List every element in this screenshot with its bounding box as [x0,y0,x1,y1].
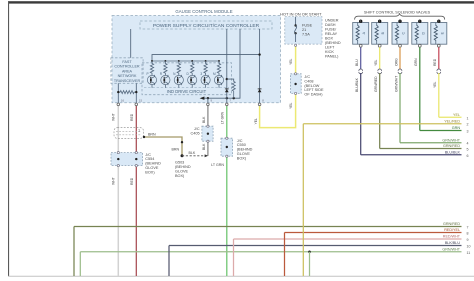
label under dash fuse relay box [325,19,341,59]
svg-text:D: D [421,32,425,35]
transistor Q2 [161,75,170,85]
svg-text:(BEHIND: (BEHIND [175,165,191,169]
svg-text:J/C: J/C [194,127,200,131]
wire CAN low inside module [117,83,119,103]
wire GRN/WHT vertical [309,252,311,276]
svg-text:8: 8 [467,232,469,236]
wire ORG solenoid C upper [399,47,401,69]
wire BLU solenoid A upper [360,47,362,69]
svg-text:16: 16 [121,99,125,103]
terminal connector [295,44,297,46]
terminal connector [207,125,209,127]
wire GRN/WHT solenoid C lower [399,73,401,143]
wire Q5 output [205,85,207,88]
transistor Q6 [214,75,223,85]
wire L2 to brace [379,19,381,22]
wire base rail [152,60,219,62]
node bus / BLK drop [207,97,209,99]
svg-text:C405: C405 [191,131,200,135]
svg-text:(BEHIND: (BEHIND [145,162,161,166]
diode D1 on LT GRN vertical [225,89,229,92]
fuse 21 7.5A [294,17,312,42]
terminal L3 bottom [399,44,402,47]
svg-text:3: 3 [200,72,202,76]
terminal connector [295,73,297,75]
svg-text:WHT: WHT [112,177,116,185]
svg-text:YEL: YEL [433,81,437,88]
terminal connector [295,92,297,94]
svg-text:BRN: BRN [148,132,156,136]
node CAN high / resistor [135,91,137,93]
node GRN/WHT branch [308,251,311,254]
wire GRN/RED exit 7 [74,226,462,228]
svg-text:BOX): BOX) [175,174,185,178]
ground G503 [181,154,184,157]
wire YEL/RED exit 2 [303,123,461,125]
wire L4 to brace [419,19,421,22]
wire RED/WHT vertical [233,239,235,276]
svg-text:GRN: GRN [452,126,461,130]
terminal module pin 9 [207,99,213,106]
svg-text:PANEL): PANEL) [325,55,339,59]
svg-text:RED: RED [130,177,134,185]
solenoid L5 (E) [431,23,447,45]
node L4 top [418,20,421,23]
node L5 top [437,20,440,23]
power supply circuit/can controller U1a [140,21,272,29]
wire L5 to brace [438,19,440,22]
shift control solenoid valves group [353,10,447,154]
svg-text:POWER SUPPLY CIRCUIT/CAN CONTR: POWER SUPPLY CIRCUIT/CAN CONTROLLER [153,23,260,29]
node rail Q3 [178,60,180,62]
wire GRN/WHT exit 11 [80,251,461,253]
junction block C554 [111,153,161,175]
terminal connector [117,165,119,167]
svg-text:7: 7 [467,226,469,230]
bus wire with arrow at module bottom [204,29,240,98]
BLK wire [207,106,209,156]
wire BLK/BLU vertical [168,246,170,277]
RED wire [135,106,137,276]
svg-text:TRANSCEIVER: TRANSCEIVER [114,79,141,83]
terminal module pin 7 [226,99,232,106]
solenoid L3 (C) [392,23,408,45]
svg-text:(BEHIND: (BEHIND [325,41,341,45]
wire BLU/BLK exit 6 [361,154,462,156]
wire BLK drop inside module [207,98,209,103]
svg-text:GRN: GRN [414,58,418,66]
svg-text:LEFT SIDE: LEFT SIDE [304,88,324,92]
svg-text:LT GRN: LT GRN [220,111,224,124]
wire feed rail top [152,55,260,61]
wire Q6 output [218,85,220,88]
node L1 top [359,20,362,23]
transistor Q4 [188,75,197,85]
svg-text:GRN/RED: GRN/RED [443,144,460,148]
svg-text:J/C: J/C [304,75,310,79]
svg-text:11: 11 [467,251,471,255]
wire YEL module to fuse U [260,96,296,128]
wire GRN solenoid D upper [419,47,421,130]
LT GRN wire [226,106,228,276]
node bus / resistor R8 [233,97,235,99]
node rail Q5 [205,60,207,62]
wire L1 to brace [360,19,362,22]
svg-text:BLU/BLK: BLU/BLK [445,151,461,155]
wire RED/WHT exit 9 [234,238,462,240]
svg-text:GRN/WHT: GRN/WHT [442,248,460,252]
solenoid L2 (B) [372,23,388,45]
node BRN mid [181,141,183,143]
svg-text:YEL: YEL [254,118,258,125]
svg-text:2: 2 [467,123,469,127]
wire Q3 output [178,85,180,88]
svg-text:IND DRIVE CIRCUIT: IND DRIVE CIRCUIT [167,89,207,94]
wire YEL solenoid B upper [379,47,381,69]
svg-text:C408: C408 [304,79,313,83]
top frame border [8,1,474,3]
connector inline L5 [437,69,441,74]
svg-text:(BELOW: (BELOW [304,84,319,88]
svg-text:GLOVE: GLOVE [237,152,251,156]
svg-text:9: 9 [467,238,469,242]
svg-text:KICK: KICK [325,50,334,54]
svg-text:FUSE/: FUSE/ [325,28,337,32]
svg-text:GAUGE CONTROL MODULE: GAUGE CONTROL MODULE [175,9,232,14]
connector inline L3 [398,69,402,74]
terminal connector [226,137,228,139]
svg-text:15: 15 [139,99,143,103]
svg-text:YEL: YEL [289,102,293,109]
wire YEL/RED vertical [302,124,304,276]
exit wires right edge [74,113,471,255]
svg-text:BOX): BOX) [145,170,155,174]
node shield/BRN [143,136,145,138]
wire BLU/BLK solenoid A lower [360,73,362,155]
svg-text:NETWORK: NETWORK [118,74,137,78]
wire BLK/BLU exit 10 [169,245,462,247]
node rail Q4 [191,60,193,62]
label G503 [175,161,191,178]
resistor R7 CAN termination [118,91,136,94]
svg-text:4: 4 [467,142,469,146]
terminal L1 bottom [359,44,362,47]
resistor R8 branch wire [227,79,234,81]
svg-text:5: 5 [467,148,469,152]
svg-text:YEL: YEL [374,59,378,66]
arrow left end of bus [200,97,205,100]
wire GRN/RED vertical [73,227,75,277]
solenoid L4 (D) [412,23,428,45]
resistor R8 [232,82,235,99]
transistor Q1 [147,75,156,85]
wire power box to FAST box [130,29,132,58]
wire BLK dashed to ground [182,155,207,157]
terminal module pin 8 [258,99,264,106]
node CAN low / resistor [117,91,119,93]
svg-text:FUSE: FUSE [302,24,313,28]
svg-text:FAST: FAST [122,60,132,64]
wire YEL vertical inside module [259,29,261,103]
wire L3 to brace [399,19,401,22]
svg-text:BLU/BLK: BLU/BLK [355,77,359,92]
svg-text:10: 10 [467,245,471,249]
shield around CAN pair [114,128,144,139]
solenoid L1 (A) [353,23,369,45]
node rail Q2 [164,60,166,62]
resistor R3 [177,61,180,75]
svg-text:GRN/RED: GRN/RED [443,222,460,226]
wire YEL solenoid E lower [438,73,440,117]
svg-text:BLK: BLK [189,151,196,155]
svg-text:C550: C550 [237,143,246,147]
terminal connector [207,140,209,142]
resistor R5 [204,61,207,75]
terminal connector [135,165,137,167]
svg-text:HOT IN ON OR START: HOT IN ON OR START [280,11,322,16]
wire Q2 output [164,85,166,88]
node L2 top [378,20,381,23]
arrow BLK dashed end [205,154,209,157]
terminal connector [226,155,228,157]
wire RED/YEL vertical [284,233,286,277]
svg-text:C: C [402,32,406,35]
bottom area verticals [74,44,310,276]
wire YEL fuse to C408 [295,44,297,96]
svg-text:AREA: AREA [122,69,133,73]
transistor Q3 [174,75,183,85]
svg-text:YEL: YEL [289,58,293,65]
terminal L2 bottom [378,44,381,47]
transistor Q5 [201,75,210,85]
svg-text:BLK: BLK [202,116,206,123]
svg-text:GRN/RED: GRN/RED [374,76,378,92]
diode D2 on YEL vertical [258,89,262,92]
gauge control module U1 outline [112,9,281,103]
terminal L4 bottom [418,44,421,47]
svg-text:(BEHIND: (BEHIND [237,148,253,152]
svg-text:BLK: BLK [202,143,206,150]
svg-text:BOX: BOX [325,37,333,41]
svg-text:C554: C554 [145,157,154,161]
svg-text:3: 3 [467,130,469,134]
fuse box hot in on or start [280,11,322,44]
node L3 top [398,20,401,23]
svg-text:1: 1 [138,129,140,133]
wire GRN exit 3 [420,130,462,132]
internal dashed line of ind box [144,87,229,89]
svg-text:RED: RED [130,113,134,121]
svg-text:J/C: J/C [145,153,151,157]
svg-text:1: 1 [467,116,469,120]
node rail Q1 [151,60,153,62]
svg-text:7.5A: 7.5A [302,33,310,37]
svg-text:OF DASH): OF DASH) [304,93,323,97]
terminal module pin 15 [135,99,142,106]
wire GRN/RED solenoid B lower [379,73,381,149]
six indicator driver cells [146,60,223,88]
resistor R6 [217,61,220,75]
wire CAN high inside module [135,83,137,103]
svg-text:UNDER: UNDER [325,19,339,23]
wire Q1 output [151,85,153,88]
bottom frame border [8,275,474,278]
svg-text:BOX): BOX) [237,156,247,160]
brace solenoid group [355,14,445,20]
svg-text:GLOVE: GLOVE [175,169,189,173]
svg-text:BRN: BRN [172,147,180,151]
fast controller area network transceiver U1b [111,58,143,84]
svg-text:G503: G503 [175,161,184,165]
wire Q4 output [191,85,193,88]
svg-text:BLK/BLU: BLK/BLU [445,241,461,245]
svg-text:21: 21 [302,28,306,32]
node YEL / feed rail [258,53,260,55]
junction block C408 [290,74,324,97]
svg-text:CONTROLLER: CONTROLLER [114,65,140,69]
left frame border [8,1,9,276]
svg-text:YEL: YEL [453,113,460,117]
svg-text:LT GRN: LT GRN [211,163,224,167]
svg-text:M: M [213,72,216,76]
svg-text:RED/YEL: RED/YEL [444,228,460,232]
svg-text:DASH: DASH [325,23,336,27]
terminal L5 bottom [437,44,440,47]
svg-text:J/C: J/C [237,139,243,143]
junction block C405 [191,126,214,141]
svg-text:LEFT: LEFT [325,46,335,50]
junction block C550 [221,138,253,160]
svg-text:P: P [146,72,148,76]
resistor R4 [191,61,194,75]
svg-text:YEL/RED: YEL/RED [444,119,460,123]
node bus / LT GRN vertical [226,97,228,99]
svg-text:GRN/WHT: GRN/WHT [442,138,460,142]
svg-text:RELAY: RELAY [325,32,338,36]
wire GRN/WHT vertical [79,252,81,276]
connector inline L2 [378,69,382,74]
terminal connector [117,152,119,154]
svg-text:RED/WHT: RED/WHT [443,235,461,239]
connector inline L1 [359,69,363,74]
wire YEL exit 1 [439,116,462,118]
WHT wire [117,106,119,276]
wire GRN/WHT exit 4 [400,142,462,144]
ind drive circuit box [142,63,232,95]
resistor R2 [164,61,167,75]
svg-text:RED: RED [433,58,437,66]
wire RED solenoid E upper [438,47,440,69]
wire BRN shield drain [144,137,182,156]
terminal connector [135,152,137,154]
node LT GRN / R8 branch [226,78,228,80]
svg-text:WHT: WHT [112,113,116,121]
svg-text:GRN/WHT: GRN/WHT [394,76,398,92]
node rail Q6 [218,60,220,62]
terminal module pin 16 [117,99,124,106]
svg-text:ORG: ORG [394,58,398,66]
svg-text:GLOVE: GLOVE [145,166,159,170]
wire RED/YEL exit 8 [285,232,462,234]
wire GRN/RED exit 5 [380,148,462,150]
svg-text:BLU: BLU [355,59,359,66]
wire LT GRN vertical inside module [226,29,228,103]
resistor R1 [150,61,153,75]
svg-text:6: 6 [467,154,469,158]
svg-text:SHIFT CONTROL SOLENOID VALVES: SHIFT CONTROL SOLENOID VALVES [364,10,431,14]
